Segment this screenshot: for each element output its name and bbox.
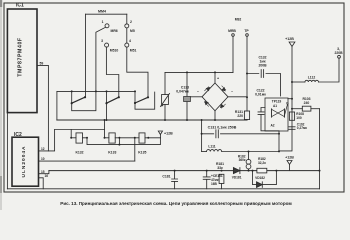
relay contact SW2 bbox=[106, 91, 108, 103]
svg-text:М51: М51 bbox=[130, 48, 137, 52]
inductor L111 bbox=[202, 151, 207, 153]
svg-text:MRB: MRB bbox=[228, 29, 236, 33]
wire triac gate stub bbox=[288, 98, 292, 100]
diode bridge VD131 bbox=[202, 83, 228, 111]
svg-text:0,01мк: 0,01мк bbox=[255, 93, 266, 97]
resistor R131 bbox=[244, 111, 249, 120]
svg-text:TMP87PM40F: TMP87PM40F bbox=[18, 37, 24, 76]
varistor RU bbox=[164, 72, 166, 120]
contact M51 circle 4 bbox=[125, 43, 129, 47]
wire main bus bbox=[57, 119, 247, 121]
resistor R182 bbox=[257, 168, 267, 173]
terminal 220V bbox=[338, 55, 341, 58]
+12V top supply bbox=[289, 42, 295, 47]
svg-text:М92: М92 bbox=[235, 18, 242, 22]
wire lever of contact 1 bbox=[96, 27, 106, 91]
svg-text:Рис. 13. Принципиальная электр: Рис. 13. Принципиальная электрическая сх… bbox=[60, 201, 292, 206]
svg-text:12: 12 bbox=[41, 147, 45, 151]
svg-text:3: 3 bbox=[101, 39, 103, 43]
svg-text:1: 1 bbox=[102, 20, 104, 24]
svg-text:ММ4: ММ4 bbox=[98, 10, 106, 14]
svg-text:C181: C181 bbox=[162, 174, 170, 178]
svg-text:A2: A2 bbox=[270, 124, 274, 128]
capacitor CE181 electrolytic bbox=[203, 171, 210, 189]
left scan shadow bbox=[0, 0, 2, 210]
wire IC1 pin 59 bbox=[37, 65, 48, 150]
svg-text:TP: TP bbox=[244, 29, 249, 33]
svg-text:220В: 220В bbox=[334, 51, 343, 55]
bridge diode symbols bbox=[204, 86, 226, 109]
wire circle2 top stub bbox=[126, 14, 128, 24]
svg-text:100: 100 bbox=[296, 116, 302, 120]
svg-text:59: 59 bbox=[40, 61, 44, 65]
svg-text:A1: A1 bbox=[273, 104, 277, 108]
contact M510 circle 3 bbox=[105, 43, 109, 47]
svg-text:−: − bbox=[197, 90, 199, 94]
svg-text:K133: K133 bbox=[108, 151, 116, 155]
capacitor C181 bbox=[172, 171, 178, 189]
wire IC2 pin 16 bbox=[39, 178, 44, 189]
contact M51 circle 2 bbox=[125, 24, 129, 28]
svg-text:L111: L111 bbox=[208, 144, 215, 148]
svg-text:3,: 3, bbox=[337, 47, 340, 51]
wire coil feed line bbox=[55, 129, 105, 131]
contact M50 circle 1 bbox=[105, 24, 109, 28]
svg-text:L112: L112 bbox=[308, 75, 316, 79]
svg-text:+12В: +12В bbox=[164, 131, 173, 135]
capacitor C131 bbox=[201, 120, 203, 152]
wire rail left end down to bus bbox=[56, 91, 58, 120]
svg-text:16: 16 bbox=[45, 174, 49, 178]
wire IC2 pin 12 bbox=[39, 130, 55, 151]
capacitor C132 bbox=[247, 70, 281, 97]
wire lower bottom rail bbox=[7, 188, 319, 190]
svg-text:VD182: VD182 bbox=[255, 176, 265, 180]
IC2 U2 driver box bbox=[12, 137, 39, 186]
svg-text:M510: M510 bbox=[110, 48, 119, 52]
svg-text:10: 10 bbox=[41, 157, 45, 161]
svg-text:K135: K135 bbox=[138, 151, 146, 155]
svg-text:K132: K132 bbox=[75, 151, 83, 155]
wire IC1 bottom-left to lower rail bbox=[6, 113, 8, 189]
lamp HL bbox=[248, 152, 250, 171]
resistor R108 bbox=[289, 112, 294, 120]
resistor R181 bbox=[219, 174, 224, 183]
svg-text:0,27мк: 0,27мк bbox=[297, 126, 308, 130]
svg-text:ULN2004A: ULN2004A bbox=[21, 146, 27, 178]
svg-text:IC1: IC1 bbox=[16, 3, 24, 9]
svg-text:ТР119: ТР119 bbox=[272, 100, 282, 104]
svg-text:М5: М5 bbox=[130, 29, 135, 33]
terminal TP bbox=[246, 34, 249, 37]
wire IC2 pin 10 bbox=[39, 160, 135, 162]
svg-text:220: 220 bbox=[237, 114, 243, 118]
resistor R103 bbox=[292, 108, 302, 110]
svg-text:+12В: +12В bbox=[285, 37, 294, 41]
capacitor C133 bbox=[186, 72, 188, 120]
+12V lower supply arrow bbox=[287, 161, 292, 165]
svg-text:200В: 200В bbox=[258, 64, 267, 68]
relay contact SW3 bbox=[134, 91, 136, 103]
svg-text:IC2: IC2 bbox=[14, 132, 22, 138]
wire switch rail bbox=[57, 90, 135, 92]
capacitor C102 bbox=[289, 127, 295, 130]
wire circle2 to circle4 bbox=[126, 28, 128, 43]
wire MM4 top rail bbox=[86, 13, 127, 15]
triac box U3 bbox=[265, 98, 288, 131]
svg-text:32,2к: 32,2к bbox=[258, 161, 266, 165]
diode VD181 bbox=[233, 168, 240, 174]
relay coil K133 bbox=[105, 137, 109, 139]
wire IC2 pin 15 bbox=[39, 171, 49, 174]
svg-text:+: + bbox=[217, 77, 219, 81]
relay contact SW1 bbox=[71, 91, 73, 103]
terminal MRB bbox=[232, 34, 235, 37]
svg-text:−: − bbox=[231, 90, 233, 94]
wire line A upper horizontal bbox=[165, 71, 233, 73]
diode VD182 branch bbox=[253, 171, 257, 185]
wire rail-left drop to SW1 contact bbox=[85, 14, 87, 97]
IC1 U1 microcontroller box bbox=[7, 9, 37, 113]
svg-text:C131 0,1мк 250В: C131 0,1мк 250В bbox=[208, 126, 237, 130]
inductor L112 bbox=[292, 81, 305, 83]
+12V coil supply arrow bbox=[159, 135, 161, 138]
wire A2 node vertical bbox=[278, 131, 280, 151]
capacitor C122 bbox=[258, 108, 279, 131]
svg-text:360к: 360к bbox=[239, 158, 246, 162]
wire right column bbox=[319, 109, 321, 189]
svg-text:0,047мк: 0,047мк bbox=[176, 90, 189, 94]
svg-text:2: 2 bbox=[130, 20, 132, 24]
triac VS bbox=[272, 109, 285, 116]
svg-text:16В: 16В bbox=[211, 182, 218, 186]
wire circle3 staircase to SW2 contact bbox=[106, 47, 118, 97]
relay coil K132 bbox=[71, 137, 76, 139]
svg-text:+12В: +12В bbox=[285, 155, 294, 159]
wire lower mid rail bbox=[49, 170, 320, 172]
wire circle4 staircase to SW3 contact bbox=[127, 47, 148, 97]
svg-text:240: 240 bbox=[304, 101, 310, 105]
svg-text:MR6: MR6 bbox=[111, 29, 118, 33]
svg-text:33к: 33к bbox=[217, 166, 223, 170]
relay coil K135 bbox=[135, 137, 139, 139]
svg-text:VD181: VD181 bbox=[232, 176, 242, 180]
svg-text:4: 4 bbox=[129, 39, 131, 43]
